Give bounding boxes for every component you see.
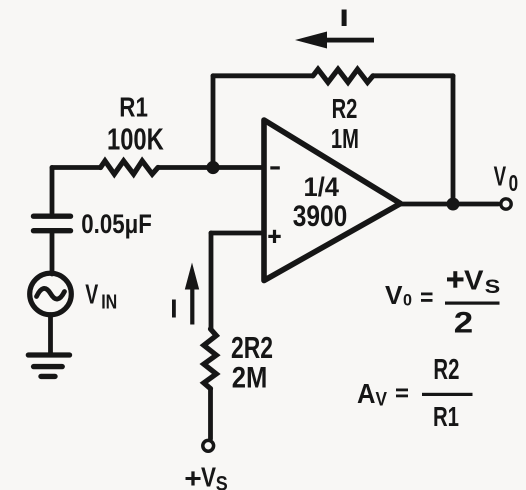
svg-text:V: V: [85, 279, 98, 310]
wire right feedback vertical: [451, 76, 456, 204]
capacitor C1 plate top: [34, 213, 71, 218]
svg-text:+: +: [184, 463, 202, 490]
wire 2R2 to +VS terminal: [208, 389, 213, 439]
svg-text:2R2: 2R2: [231, 331, 273, 365]
terminal +VS open circle: [203, 440, 214, 451]
svg-text:3900: 3900: [293, 200, 348, 233]
op-amp plus sign: [268, 230, 280, 243]
ground bar 3: [41, 374, 55, 379]
node junction dot at output: [447, 198, 460, 211]
arrow current I top (feedback): [295, 32, 374, 49]
op-amp minus sign: [270, 166, 280, 169]
resistor R2: [313, 69, 373, 82]
wire inverting input stub: [213, 165, 262, 170]
svg-text:R2: R2: [433, 354, 459, 386]
formula AV = R2/R1: [357, 354, 473, 432]
arrow current I left (input): [185, 263, 199, 325]
label I left: [172, 300, 176, 318]
node junction dot at R1/feedback: [206, 161, 219, 174]
svg-text:2M: 2M: [232, 362, 268, 395]
source VIN sine wave: [37, 288, 65, 299]
svg-text:V: V: [385, 280, 403, 310]
svg-text:R2: R2: [332, 93, 358, 124]
op-amp U1 triangle: [264, 120, 401, 281]
ground bar 1: [28, 352, 69, 357]
wire top right horizontal: [373, 73, 453, 78]
label VIN: [85, 279, 117, 314]
resistor R1: [101, 161, 159, 174]
svg-text:S: S: [485, 277, 501, 298]
ground bar 2: [34, 364, 63, 369]
svg-text:1/4: 1/4: [304, 172, 340, 202]
wire left feedback vertical: [211, 76, 216, 168]
wire noninverting input stub: [211, 231, 262, 236]
svg-text:V: V: [201, 462, 216, 490]
svg-text:0.05μF: 0.05μF: [81, 209, 152, 239]
svg-text:V: V: [494, 161, 507, 192]
wire cap to VIN source: [50, 233, 55, 274]
svg-text:A: A: [357, 378, 376, 409]
wire VIN to ground: [48, 315, 53, 355]
wire R1 right lead to node: [158, 165, 213, 170]
wire cap top lead: [50, 168, 55, 214]
wire R1 left lead: [52, 165, 101, 170]
formula V0 = +VS/2: [385, 265, 500, 340]
svg-text:0: 0: [403, 292, 412, 310]
svg-text:IN: IN: [101, 290, 117, 313]
svg-text:100K: 100K: [107, 122, 164, 157]
resistor 2R2: [204, 329, 217, 389]
source VIN circle: [30, 273, 72, 315]
wire top left horizontal: [213, 73, 313, 78]
svg-text:R1: R1: [433, 401, 459, 432]
capacitor C1 plate bottom: [34, 228, 71, 233]
svg-text:S: S: [216, 473, 228, 490]
svg-text:V: V: [376, 390, 388, 411]
terminal V0 open circle: [501, 199, 511, 209]
label I top: [342, 10, 347, 27]
svg-text:2: 2: [454, 307, 473, 340]
label V0 output: [494, 161, 518, 197]
wire output: [400, 202, 498, 207]
svg-text:R1: R1: [119, 92, 148, 123]
wire noninverting down to 2R2: [209, 233, 214, 329]
label +VS terminal: [184, 462, 228, 490]
svg-text:0: 0: [509, 170, 518, 196]
svg-text:1M: 1M: [331, 123, 359, 154]
svg-text:V: V: [464, 265, 484, 296]
